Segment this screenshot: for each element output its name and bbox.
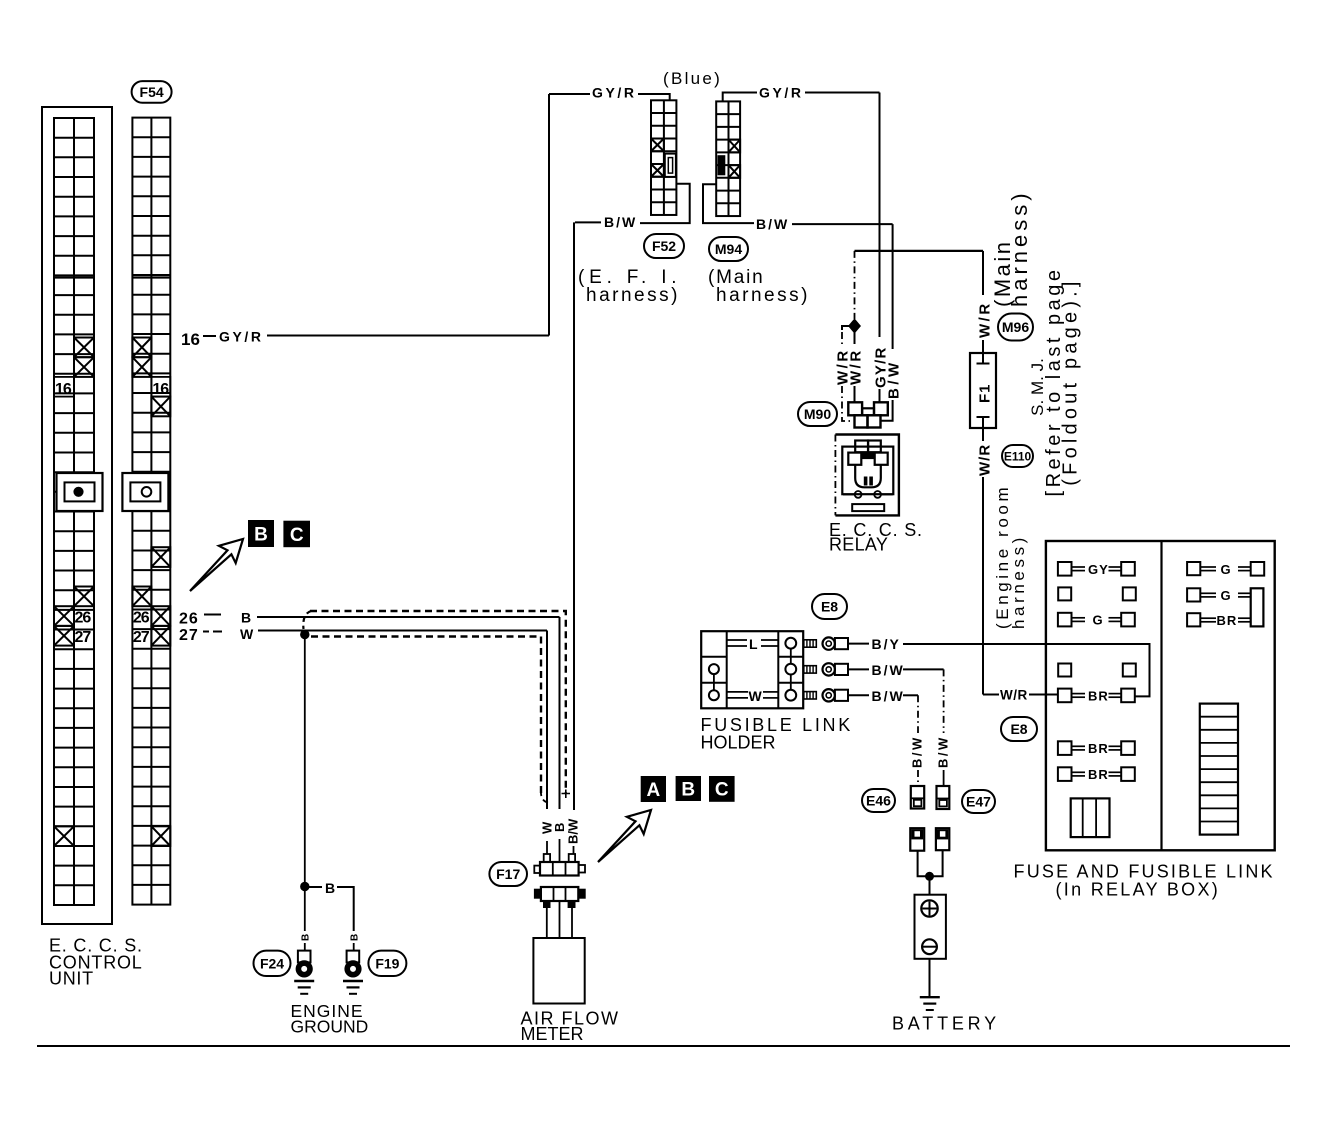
svg-text:G: G	[1221, 562, 1232, 577]
oval F52	[644, 234, 684, 258]
junction dot engine ground	[301, 882, 309, 890]
svg-text:F19: F19	[375, 955, 399, 971]
battery ground symbol	[920, 997, 940, 1010]
fusible link sub-box (B/Y feed)	[1046, 644, 1150, 696]
arrow to B C	[190, 539, 243, 591]
svg-text:(In RELAY BOX): (In RELAY BOX)	[1056, 880, 1221, 900]
label Main harness rotated	[990, 189, 1032, 307]
svg-text:GY/R: GY/R	[219, 329, 264, 345]
bottom border line	[37, 1045, 1290, 1047]
strip A pin 27 cell	[54, 626, 91, 646]
strip A X cells rows 12-13	[74, 338, 94, 377]
arrow to A B C	[598, 810, 651, 862]
wire GY/R to relay top	[805, 92, 880, 94]
fuse right row G2	[1187, 588, 1251, 603]
relay pin wire left	[843, 494, 855, 496]
junction diamond W/R	[849, 320, 860, 333]
fuse row BR 2	[1058, 741, 1135, 756]
strip A pin 26 cell	[54, 606, 91, 626]
svg-text:E8: E8	[1010, 721, 1027, 737]
svg-text:HOLDER: HOLDER	[701, 733, 776, 753]
svg-text:BR: BR	[1088, 741, 1109, 756]
strip A pin 16 cell	[54, 377, 74, 398]
relay core filled	[861, 453, 874, 460]
connector E46	[911, 786, 924, 809]
wire B/W row3 to E46	[903, 694, 918, 696]
svg-text:B: B	[350, 934, 361, 941]
fuse right row BR	[1187, 613, 1251, 628]
wire to battery	[929, 876, 931, 894]
wire B/W left horizontal	[575, 221, 601, 223]
svg-text:B/W: B/W	[756, 216, 789, 232]
junction dot battery	[926, 872, 934, 880]
svg-text:G: G	[1093, 613, 1104, 628]
fuse row GY	[1058, 562, 1135, 577]
ring terminal row2	[823, 663, 849, 675]
svg-text:B/W: B/W	[886, 359, 903, 399]
label Main harness	[708, 267, 810, 306]
strip B X cells rows 12-13	[132, 338, 151, 377]
svg-text:M94: M94	[715, 241, 742, 257]
connector F52 strip	[651, 100, 676, 215]
svg-text:W/R: W/R	[977, 444, 994, 476]
svg-text:F52: F52	[652, 238, 676, 254]
svg-text:W/R: W/R	[848, 348, 865, 385]
svg-text:B/W: B/W	[936, 735, 951, 768]
oval E110	[1002, 445, 1033, 467]
label E.C.C.S. CONTROL UNIT	[49, 936, 143, 989]
wire B/W drop E47 lower	[943, 770, 945, 786]
oval E46	[862, 789, 895, 812]
wire B/W stub	[573, 846, 575, 855]
oval M90	[798, 402, 837, 426]
fuse ladder block	[1200, 704, 1238, 835]
label E.C.C.S. RELAY	[829, 520, 923, 555]
battery minus terminal	[922, 939, 937, 954]
holder stud row2	[804, 666, 817, 673]
connector E47	[937, 786, 950, 809]
wire W/R into F1	[982, 340, 984, 364]
ground symbol F24	[294, 981, 314, 994]
label AIR FLOW METER	[521, 1009, 620, 1045]
M94 X cell row6	[729, 165, 741, 178]
fusible link tall element	[1251, 588, 1264, 626]
strip B keying box with circle	[122, 473, 168, 511]
oval E8 top	[812, 594, 847, 619]
strip B X cell row 22	[151, 547, 170, 567]
strip B X cell below 16	[151, 397, 170, 417]
svg-text:BATTERY: BATTERY	[892, 1014, 1000, 1034]
wire B ground jumper	[309, 886, 322, 888]
svg-text:16: 16	[181, 330, 200, 349]
svg-text:B: B	[325, 880, 335, 896]
sheath end curl left	[541, 790, 550, 803]
wire B/W vertical lower	[881, 400, 893, 421]
svg-text:GY/R: GY/R	[759, 85, 804, 101]
svg-text:GROUND: GROUND	[291, 1017, 369, 1037]
label Engine room harness rotated	[993, 484, 1028, 629]
svg-text:E110: E110	[1004, 449, 1032, 463]
svg-text:B/W: B/W	[566, 818, 581, 844]
strip A mid seam	[54, 276, 94, 278]
svg-text:UNIT: UNIT	[49, 969, 94, 989]
fuse row BR main	[1058, 688, 1135, 703]
F52 bottom step to B/W	[640, 184, 690, 223]
holder stud row3	[804, 692, 817, 699]
wire B/W row2 from holder	[848, 668, 869, 670]
wire B ground to F19	[337, 887, 354, 931]
fuse box divider	[1160, 541, 1162, 850]
wire stub F19	[353, 943, 355, 951]
label SMJ note rotated	[1028, 267, 1082, 497]
wire 16 dash	[203, 335, 216, 337]
wire 27 dashes	[203, 631, 209, 633]
svg-text:harness): harness)	[1007, 189, 1032, 307]
F52 X cell row6	[651, 164, 664, 177]
svg-text:C: C	[290, 525, 304, 546]
connector F17 upper	[534, 854, 585, 876]
svg-text:(Blue): (Blue)	[663, 69, 722, 88]
wire W/R to BR pin	[1029, 694, 1057, 696]
wire 26 dash	[204, 614, 221, 616]
svg-text:A: A	[646, 780, 660, 801]
sheath end tick right	[562, 790, 571, 799]
wire GY/R left vertical	[548, 94, 550, 336]
oval F17	[489, 862, 527, 886]
wire B horizontal pin26	[257, 616, 560, 618]
harness sheath dashed outer	[310, 611, 566, 794]
ground symbol F19	[343, 981, 363, 994]
svg-text:26: 26	[75, 610, 92, 627]
wire B/W drop E46 upper	[917, 695, 919, 733]
ring terminal row1	[823, 637, 849, 649]
strip B pin 27 cell	[133, 626, 170, 646]
fuse row BR 3	[1058, 767, 1135, 782]
holder right circles	[785, 638, 796, 701]
svg-text:27: 27	[75, 629, 92, 646]
wire W/R-1 dash-dot	[841, 332, 843, 344]
wire GY/R into F52	[638, 94, 670, 100]
relay outer box	[835, 435, 899, 516]
wire B/W right horizontal	[792, 223, 893, 225]
wire GY/R pin16 horizontal	[267, 335, 549, 337]
fuse right row G1	[1187, 562, 1264, 577]
ground terminal F24	[298, 951, 311, 975]
wire B/W drop E47 upper	[943, 669, 945, 733]
strip B X cell row 24	[132, 587, 151, 607]
battery box	[915, 895, 946, 959]
M94 X cell row4	[729, 140, 741, 153]
wire B/Y to fuse box	[903, 643, 1046, 645]
oval F19	[368, 951, 406, 976]
svg-text:B/W: B/W	[872, 662, 905, 678]
connector F17 mate	[534, 887, 586, 908]
svg-text:16: 16	[55, 381, 72, 398]
svg-text:(Foldout page).]: (Foldout page).]	[1060, 277, 1082, 485]
svg-text:16: 16	[152, 381, 169, 398]
wire B/W row3 from holder	[848, 694, 869, 696]
label FUSE AND FUSIBLE LINK	[1014, 862, 1275, 900]
fuse F1 box	[970, 353, 996, 428]
svg-text:harness): harness)	[586, 285, 680, 306]
wire battery to ground	[929, 959, 931, 996]
F1 tick top	[977, 363, 990, 365]
wire W/R into fuse box	[983, 694, 999, 696]
strip A keying box with dot	[57, 473, 103, 511]
wire GY/R M94 up	[723, 93, 757, 102]
svg-text:B/W: B/W	[872, 688, 905, 704]
callout box C	[709, 776, 735, 802]
wire B ground vertical	[304, 635, 306, 887]
fuse spare squares sub-box	[1058, 664, 1136, 677]
ground terminal F19	[347, 951, 360, 975]
holder fuse L element	[727, 636, 779, 652]
strip B mid seam	[132, 276, 170, 278]
svg-text:L: L	[749, 636, 758, 652]
connector strip F54-A (control unit left)	[54, 118, 94, 905]
fusible link holder body	[701, 631, 803, 708]
svg-text:RELAY: RELAY	[829, 535, 888, 555]
callout box A	[641, 776, 666, 802]
svg-text:M96: M96	[1002, 319, 1029, 335]
svg-text:F54: F54	[140, 84, 164, 100]
svg-text:27: 27	[179, 627, 199, 644]
wire GY/R vertical	[879, 93, 881, 338]
oval F54	[132, 81, 172, 103]
holder left circles	[709, 664, 719, 700]
wire AFM pin3	[571, 908, 573, 938]
svg-text:harness): harness)	[716, 285, 810, 306]
strip B X cell row 37	[151, 826, 170, 846]
wire stub F24	[304, 943, 306, 951]
wire GY/R top left segment	[549, 93, 590, 95]
svg-text:METER: METER	[521, 1024, 584, 1044]
relay coil terminals	[855, 441, 881, 453]
wire GY/R vertical lower	[879, 389, 881, 402]
F52 X cell row4	[651, 139, 664, 152]
strip A X cell row 24	[74, 587, 94, 607]
wire E46 to battery	[918, 851, 930, 877]
wire W/R dash-dot down	[854, 251, 856, 319]
wire E47 to battery	[930, 850, 943, 876]
connector M94 strip	[716, 101, 740, 216]
svg-text:B/W: B/W	[910, 735, 925, 768]
fuse spare squares row2	[1058, 587, 1136, 600]
svg-text:M90: M90	[804, 406, 831, 422]
connector strip F54-B (control unit right)	[132, 118, 170, 905]
wire AFM pin2	[559, 901, 561, 938]
svg-text:GY/R: GY/R	[592, 85, 637, 101]
svg-text:E46: E46	[866, 793, 891, 809]
svg-text:FUSE AND FUSIBLE LINK: FUSE AND FUSIBLE LINK	[1014, 862, 1275, 882]
svg-text:harness): harness)	[1009, 534, 1028, 629]
relay contact left	[848, 453, 861, 465]
svg-text:F17: F17	[496, 866, 520, 882]
svg-text:W: W	[749, 688, 763, 704]
junction dot at W wire	[301, 630, 309, 638]
wire W/R-2 below diamond	[854, 333, 856, 345]
svg-text:26: 26	[179, 611, 199, 628]
connector E46 mate	[910, 828, 924, 851]
connector E47 mate	[936, 828, 949, 850]
F1 tick bottom	[977, 416, 990, 418]
oval E8 right	[1001, 717, 1037, 741]
callout box C upper	[283, 521, 310, 548]
connector M90 cluster	[848, 402, 888, 427]
holder fuse W element	[727, 688, 779, 704]
relay armature housing	[855, 465, 881, 488]
svg-text:26: 26	[133, 610, 150, 627]
wire W/R long vertical	[982, 477, 984, 695]
svg-text:B: B	[681, 779, 695, 800]
wire B/W row2 to E47	[903, 668, 944, 670]
svg-text:B/Y: B/Y	[872, 636, 901, 652]
oval M94	[709, 237, 748, 261]
wire W/R diamond stub left	[842, 326, 850, 330]
fuse row G	[1058, 613, 1135, 628]
fuse box outline	[1046, 541, 1275, 850]
svg-text:G: G	[1221, 588, 1232, 603]
E.C.C.S. control unit outline	[42, 107, 112, 924]
strip B pin 26 cell	[133, 606, 170, 626]
oval F24	[254, 951, 291, 976]
wire AFM pin1	[546, 908, 548, 938]
relay pin circle left	[855, 491, 862, 498]
wire B/W left vertical	[573, 222, 575, 810]
svg-text:W/R: W/R	[1000, 688, 1028, 703]
svg-text:27: 27	[133, 629, 150, 646]
relay contact right	[875, 453, 888, 465]
svg-text:F24: F24	[260, 955, 284, 971]
relay pin circle right	[874, 491, 881, 498]
wire W/R-2 lower	[854, 386, 856, 402]
harness sheath dashed inner	[311, 637, 541, 798]
wire W vertical to AFM	[546, 631, 548, 810]
relay armature marks	[864, 477, 868, 486]
air flow meter body	[533, 938, 584, 1004]
svg-text:GY: GY	[1088, 562, 1109, 577]
M94 keying slot filled	[718, 155, 726, 175]
wire W stub	[546, 841, 548, 855]
wire B/Y from holder	[848, 643, 869, 645]
label ENGINE GROUND	[291, 1001, 369, 1037]
wire W/R-1 lower	[842, 386, 853, 421]
oval M96	[998, 314, 1033, 341]
wire below F1	[982, 417, 984, 441]
M94 bottom step to B/W	[703, 184, 754, 223]
strip A X cell row 37	[54, 826, 74, 846]
svg-text:E8: E8	[821, 599, 838, 615]
svg-text:BR: BR	[1088, 688, 1109, 703]
wire B/W drop E46 lower	[917, 770, 919, 786]
wire B stub	[559, 839, 561, 862]
callout box B upper	[248, 520, 274, 547]
holder stud row1	[804, 640, 817, 647]
oval E47	[962, 790, 995, 813]
fuse block 3-cell	[1071, 798, 1110, 837]
ring terminal row3	[823, 689, 849, 701]
svg-text:C: C	[715, 780, 729, 801]
battery plus terminal	[921, 900, 937, 916]
relay inner box	[842, 447, 893, 495]
wire B vertical to AFM	[559, 617, 561, 809]
label FUSIBLE LINK HOLDER	[701, 715, 853, 753]
label EFI harness	[578, 267, 681, 306]
F52 keying slot	[665, 154, 676, 177]
svg-text:B: B	[301, 934, 312, 941]
wire W/R horizontal top	[855, 250, 984, 252]
svg-text:E47: E47	[966, 794, 991, 810]
callout box B	[676, 776, 701, 801]
svg-text:B: B	[254, 524, 268, 545]
svg-text:B: B	[241, 610, 251, 626]
svg-text:B/W: B/W	[604, 214, 637, 230]
svg-text:BR: BR	[1088, 767, 1109, 782]
wire W/R right vertical upper	[982, 251, 984, 295]
svg-text:F1: F1	[977, 383, 994, 403]
svg-text:BR: BR	[1217, 613, 1238, 628]
relay bottom tab	[852, 504, 884, 511]
wire down to F24	[304, 887, 306, 932]
strip B pin 16 cell	[151, 377, 170, 398]
wire B/W vertical	[892, 224, 894, 349]
svg-text:W: W	[240, 626, 254, 642]
harness sheath dashed outer end curl	[303, 611, 311, 629]
wire W horizontal pin27	[258, 630, 547, 632]
relay pin wire right	[881, 494, 893, 496]
